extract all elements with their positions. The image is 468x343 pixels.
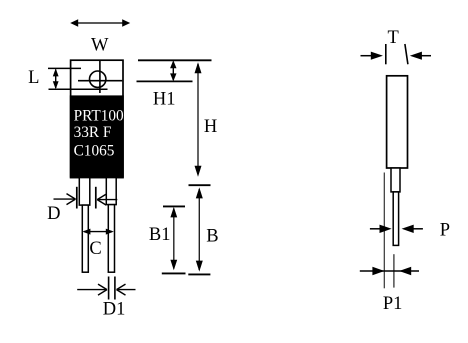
svg-text:H1: H1	[153, 89, 176, 109]
resistor body (black)	[70, 95, 124, 177]
T right tick (slanted)	[405, 44, 408, 64]
dimension P1 arrows	[360, 267, 419, 275]
svg-text:P: P	[440, 221, 450, 241]
svg-text:D1: D1	[103, 300, 126, 320]
svg-text:T: T	[388, 28, 399, 48]
dimension L arrow	[53, 68, 59, 89]
svg-text:H: H	[204, 117, 217, 137]
P extension line (long)	[383, 173, 385, 289]
left lead wide section	[79, 178, 90, 206]
dimension B1 arrow	[170, 207, 177, 270]
D left tick	[76, 187, 78, 209]
dimension W arrow	[70, 19, 130, 27]
dimension D1 right arrow (open head)	[117, 284, 136, 295]
svg-text:P1: P1	[383, 294, 403, 314]
P1 right tick	[393, 254, 395, 287]
B1 top level line	[163, 205, 185, 207]
H1 level extension line	[137, 80, 193, 82]
hole horizontal centerline	[78, 80, 122, 82]
side view body	[387, 76, 408, 168]
svg-text:C1065: C1065	[74, 142, 115, 159]
svg-text:33R F: 33R F	[74, 124, 112, 141]
dimension C arrow	[82, 229, 113, 235]
side lead wide section	[391, 168, 400, 192]
dimension D left arrow (open head)	[54, 194, 76, 205]
svg-text:PRT100: PRT100	[74, 107, 124, 124]
svg-text:C: C	[89, 239, 101, 259]
dimension T right arrow	[410, 52, 431, 60]
svg-text:D: D	[47, 204, 60, 224]
svg-text:W: W	[91, 36, 109, 56]
dimension P left arrow	[370, 225, 392, 233]
right lead narrow section	[108, 205, 114, 273]
dimension H1 arrow	[170, 60, 176, 81]
dimension D right arrow (open head)	[97, 194, 117, 205]
svg-text:B: B	[206, 226, 218, 246]
left lead narrow section	[82, 205, 88, 272]
B1 bottom level line	[162, 272, 186, 274]
L top extension line	[48, 67, 81, 69]
package outline front view	[71, 60, 123, 177]
svg-text:B1: B1	[149, 225, 171, 245]
D1 left tick	[108, 277, 110, 300]
L bottom extension line	[49, 88, 108, 90]
dimension H arrow	[195, 62, 202, 177]
D1 right tick	[114, 277, 116, 300]
body bottom level line	[189, 184, 211, 186]
D right tick	[95, 187, 97, 209]
top level extension line	[138, 59, 212, 61]
dimension D1 left arrow (open head)	[77, 284, 107, 295]
dimension P right arrow	[402, 225, 423, 233]
hole vertical centerline	[99, 60, 101, 93]
right lead wide section	[106, 178, 116, 205]
mounting hole	[90, 71, 106, 87]
side lead narrow section	[393, 192, 398, 246]
B bottom level line	[188, 273, 210, 275]
dimension B arrow	[196, 187, 203, 271]
dimension T left arrow	[361, 52, 383, 60]
svg-text:L: L	[28, 68, 39, 88]
T left tick	[385, 44, 387, 64]
